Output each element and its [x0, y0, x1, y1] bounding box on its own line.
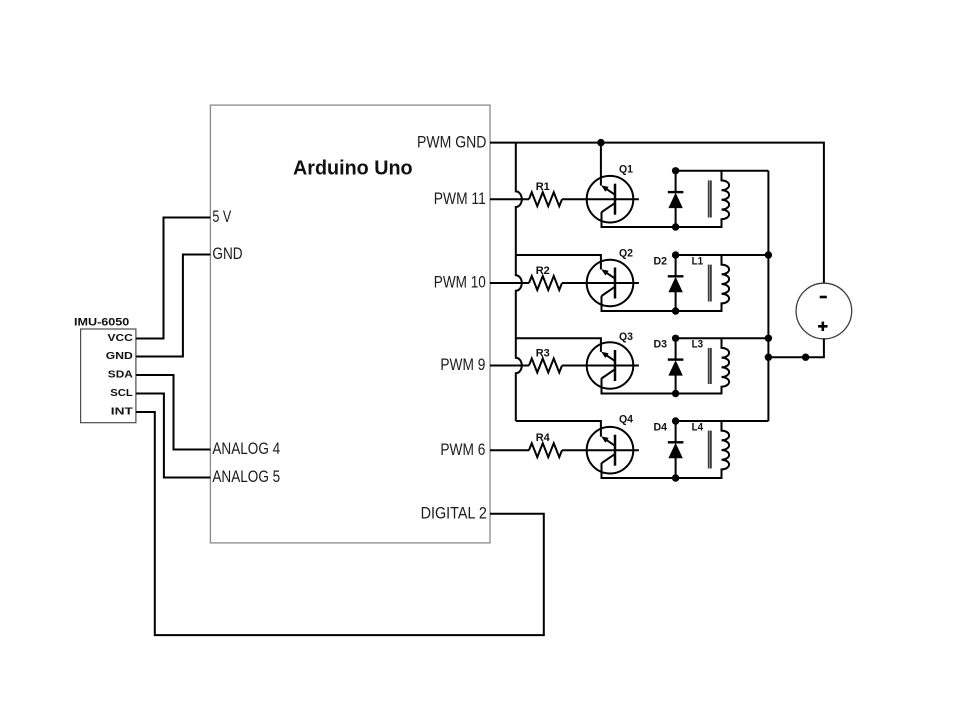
inductor L4 [692, 421, 730, 478]
wire Q1 collector to load bottom stage 1 [602, 212, 723, 227]
svg-text:Arduino Uno: Arduino Uno [293, 158, 413, 180]
wire Q3 collector to load bottom stage 3 [602, 378, 723, 393]
wire Q1 emitter to PWM GND rail [600, 143, 602, 186]
wire Q4 emitter to ground bus [516, 421, 601, 437]
svg-text:L1: L1 [692, 255, 704, 267]
wire resistor to base stage 3 [562, 365, 639, 367]
pin label GND [212, 244, 242, 263]
svg-text:DIGITAL 2: DIGITAL 2 [421, 503, 487, 522]
pin label PWM GND [417, 132, 486, 151]
wire right load bus [767, 171, 769, 421]
svg-text:Q3: Q3 [619, 331, 633, 343]
transistor Q1 [587, 163, 634, 222]
node on battery wire [802, 354, 809, 361]
svg-text:PWM 10: PWM 10 [434, 273, 486, 292]
IMU pin label VCC [108, 333, 133, 344]
wire stage 2 top line [676, 254, 769, 256]
resistor R1 [529, 181, 562, 206]
node diode cathode stage 4 [672, 417, 679, 424]
svg-text:PWM 11: PWM 11 [434, 189, 486, 208]
IMU pin label SDA [108, 369, 133, 380]
svg-text:5 V: 5 V [212, 207, 231, 226]
diode D2 [654, 255, 684, 311]
wire battery plus to bus [768, 339, 824, 357]
svg-text:D4: D4 [654, 421, 668, 433]
wire IMU SCL to ANALOG 5 [136, 394, 211, 478]
svg-text:GND: GND [106, 351, 133, 362]
svg-text:R1: R1 [536, 181, 550, 193]
diode D3 [654, 338, 684, 393]
wire ground bus with hops [516, 143, 522, 421]
svg-text:R2: R2 [536, 265, 550, 277]
diode D1 [668, 171, 684, 227]
svg-text:L3: L3 [692, 339, 704, 351]
pin label PWM 6 [440, 440, 485, 459]
pin label PWM 11 [434, 189, 486, 208]
wire Q3 emitter to ground bus [516, 338, 601, 352]
battery / power source [796, 283, 852, 339]
wire IMU SDA to ANALOG 4 [136, 375, 211, 450]
wire GND to IMU GND [136, 255, 211, 357]
node diode cathode stage 1 [672, 167, 679, 174]
inductor L1 [692, 255, 730, 311]
inductor L2 [709, 171, 729, 227]
wire PWM pin stage 2 [490, 282, 529, 284]
svg-text:VCC: VCC [108, 333, 133, 344]
svg-text:SCL: SCL [110, 388, 133, 399]
IMU pin label GND [106, 351, 133, 362]
pin label PWM 9 [440, 355, 485, 374]
wire stage 1 top line [676, 170, 769, 172]
wire IMU INT to DIGITAL 2 [136, 412, 544, 635]
node load bus stage 3 [765, 335, 772, 342]
pin label DIGITAL 2 [421, 503, 487, 522]
wire stage 4 top line [676, 420, 769, 422]
svg-text:GND: GND [212, 244, 242, 263]
node diode anode stage 3 [672, 390, 679, 397]
inductor L3 [692, 338, 730, 393]
IMU pin label SCL [110, 388, 133, 399]
wire PWM pin stage 1 [490, 198, 529, 200]
svg-text:Q1: Q1 [619, 163, 633, 175]
wire resistor to base stage 2 [562, 282, 639, 284]
node Q1 emitter on PWM GND rail [597, 139, 604, 146]
svg-text:IMU-6050: IMU-6050 [74, 317, 129, 329]
node diode cathode stage 2 [672, 251, 679, 258]
resistor R3 [529, 348, 562, 373]
svg-text:Q4: Q4 [619, 414, 634, 426]
svg-text:INT: INT [111, 406, 133, 417]
node diode anode stage 4 [672, 474, 679, 481]
node diode anode stage 2 [672, 307, 679, 314]
node diode cathode stage 3 [672, 335, 679, 342]
svg-text:ANALOG 5: ANALOG 5 [212, 467, 280, 486]
wire PWM pin stage 4 [490, 449, 529, 451]
svg-text:PWM 9: PWM 9 [440, 355, 485, 374]
svg-text:PWM 6: PWM 6 [440, 440, 485, 459]
resistor R2 [529, 265, 562, 290]
pin label ANALOG 5 [212, 467, 280, 486]
wire 5V to IMU VCC [136, 218, 211, 339]
svg-text:D3: D3 [654, 339, 668, 351]
wire resistor to base stage 4 [562, 449, 639, 451]
svg-text:SDA: SDA [108, 369, 133, 380]
wire resistor to base stage 1 [562, 198, 639, 200]
node battery wire to load bus [765, 354, 772, 361]
wire stage 3 top line [676, 337, 769, 339]
wire PWM pin stage 3 [490, 365, 529, 367]
svg-text:R3: R3 [536, 348, 550, 360]
pin label PWM 10 [434, 273, 486, 292]
wire Q2 collector to load bottom stage 2 [602, 296, 723, 311]
svg-text:D2: D2 [654, 255, 668, 267]
node load bus stage 2 [765, 251, 772, 258]
svg-text:PWM GND: PWM GND [417, 132, 486, 151]
pin label ANALOG 4 [212, 439, 280, 458]
Arduino Uno board box [210, 105, 490, 543]
transistor Q4 [587, 414, 634, 474]
IMU-6050 module box [74, 317, 136, 423]
pin label 5 V [212, 207, 231, 226]
svg-text:ANALOG 4: ANALOG 4 [212, 439, 280, 458]
transistor Q3 [587, 331, 634, 389]
svg-text:R4: R4 [536, 432, 551, 444]
resistor R4 [529, 432, 562, 457]
wire Q4 collector to load bottom stage 4 [602, 463, 723, 478]
node diode anode stage 1 [672, 223, 679, 230]
wire PWM GND rail [490, 143, 824, 284]
diode D4 [654, 421, 684, 478]
transistor Q2 [587, 248, 634, 307]
svg-text:Q2: Q2 [619, 248, 633, 260]
IMU pin label INT [111, 406, 133, 417]
svg-text:L4: L4 [692, 421, 704, 433]
wire Q2 emitter to ground bus [516, 255, 601, 269]
